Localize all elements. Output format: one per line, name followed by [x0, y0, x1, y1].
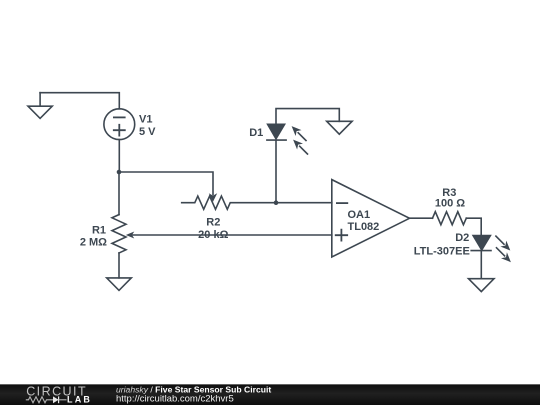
LED D2 [471, 236, 491, 251]
wire junction down to R1 [118, 172, 120, 215]
node junction at R2/D1/opamp [274, 200, 279, 205]
wire op-amp output to R3 [410, 217, 433, 219]
wire R1 wiper to op-amp plus input [131, 234, 332, 236]
wire junction up to D1 [275, 140, 277, 203]
voltage source V1 [104, 109, 135, 140]
svg-text:20 kΩ: 20 kΩ [198, 229, 228, 241]
rheostat R2 (20 kOhm) [182, 196, 276, 209]
svg-text:TL082: TL082 [348, 221, 380, 233]
ground G2 (below R1) [107, 278, 132, 291]
node junction at V1/R1/R2 [117, 170, 122, 175]
footer bar [0, 384, 540, 405]
svg-text:D1: D1 [249, 127, 263, 139]
logo resistor zigzag [26, 397, 53, 403]
wire D2 cathode to ground G4 [480, 251, 482, 279]
photodiode D1 [267, 124, 286, 140]
svg-text:http://circuitlab.com/c2khvr5: http://circuitlab.com/c2khvr5 [116, 394, 234, 405]
D1 light arrow upper [292, 126, 306, 140]
ground G1 (top left) [28, 93, 52, 119]
svg-text:R2: R2 [206, 217, 220, 229]
wire D1 anode to ground G3 [276, 109, 339, 125]
ground G3 (right of D1) [327, 121, 352, 134]
wire R1 bottom to ground G2 [118, 253, 120, 278]
wire ground G1 to V1 top [40, 93, 119, 109]
svg-text:D2: D2 [455, 232, 469, 244]
wire V1 bottom to junction [118, 140, 120, 172]
resistor R3 (100 Ohm) [433, 212, 467, 225]
svg-text:R1: R1 [92, 224, 106, 236]
svg-text:V1: V1 [139, 114, 152, 126]
D2 light arrow lower [497, 248, 511, 262]
op-amp OA1 [332, 180, 410, 257]
R2 wiper arrow [209, 193, 217, 202]
svg-text:100 Ω: 100 Ω [435, 197, 465, 209]
svg-text:OA1: OA1 [348, 209, 371, 221]
wire junction to op-amp minus input [276, 202, 332, 204]
wire junction to R2 wiper [119, 172, 213, 195]
svg-text:5 V: 5 V [139, 126, 156, 138]
potentiometer R1 (2 MOhm) [112, 215, 126, 253]
ground G4 (below D2) [469, 279, 495, 292]
wire R3 to D2 [466, 218, 481, 235]
logo diode symbol [53, 396, 59, 403]
D2 light arrow upper [496, 236, 510, 250]
svg-text:2 MΩ: 2 MΩ [80, 237, 107, 249]
svg-text:LTL-307EE: LTL-307EE [414, 246, 470, 258]
R1 wiper arrow [126, 232, 135, 239]
svg-text:LAB: LAB [67, 394, 92, 404]
D1 light arrow lower [293, 140, 307, 154]
